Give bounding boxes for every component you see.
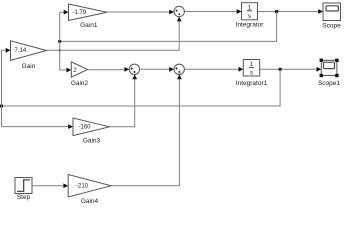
svg-text:s: s bbox=[248, 14, 251, 20]
svg-text:-160: -160 bbox=[79, 124, 92, 130]
svg-text:Integrator: Integrator bbox=[236, 21, 265, 28]
node: small dot where Gain output crosses x=59.7 bbox=[59, 49, 61, 51]
wire: Integrator1 output to Scope1 input bbox=[260, 67, 322, 72]
wire: Sum3 output to Integrator1 input bbox=[184, 67, 243, 72]
svg-text:-1.79: -1.79 bbox=[73, 10, 87, 16]
gain G2 (2) bbox=[71, 62, 87, 77]
svg-text:s: s bbox=[250, 70, 253, 76]
svg-text:Gain3: Gain3 bbox=[83, 137, 101, 144]
svg-text:Scope1: Scope1 bbox=[318, 80, 340, 87]
wire: feedback from Integrator output down and left (y=41.5) bbox=[60, 12, 277, 42]
wire: down from junction to Gain2 input bbox=[60, 41, 72, 72]
svg-text:Gain: Gain bbox=[22, 63, 36, 70]
svg-text:Gain4: Gain4 bbox=[81, 198, 99, 205]
wire: up from left junction to Gain input bbox=[2, 48, 11, 106]
gain G4 (-210) bbox=[68, 175, 111, 198]
wire: up from junction to Gain1 input bbox=[60, 10, 69, 42]
wire: Gain output right then up into Sum1 bottom bbox=[47, 17, 182, 51]
sum S1 bbox=[174, 6, 184, 16]
sum S2 bbox=[129, 64, 139, 74]
node: junction dot at x=59.7 y=41.4 bbox=[58, 40, 61, 43]
wire: Gain4 output right then up into Sum3 bottom bbox=[111, 75, 182, 186]
step source block bbox=[15, 178, 32, 194]
node: junction dot on Integrator1 output bbox=[278, 68, 281, 71]
svg-text:Gain2: Gain2 bbox=[71, 80, 89, 87]
scope SC1 bbox=[323, 3, 341, 21]
wire: Gain2 output to Sum2 left bbox=[88, 67, 130, 72]
scope SC2 (selected) bbox=[320, 59, 339, 78]
svg-text:Scope: Scope bbox=[322, 23, 341, 30]
wire: feedback from Integrator1 output down and left (y=106) bbox=[2, 69, 281, 106]
wire: Integrator output to Scope input bbox=[258, 9, 324, 14]
svg-text:Step: Step bbox=[17, 194, 31, 201]
svg-text:-210: -210 bbox=[76, 184, 89, 190]
wire: Sum1 output to Integrator input bbox=[184, 9, 241, 14]
svg-text:Gain1: Gain1 bbox=[80, 22, 98, 29]
gain G1 (-1.79) bbox=[69, 4, 108, 21]
gain G (7.14) bbox=[11, 41, 47, 61]
integrator U1 bbox=[242, 3, 258, 20]
wire: Gain1 output to Sum1 left bbox=[107, 10, 174, 15]
wire: down from left junction to Gain3 input bbox=[2, 106, 74, 129]
wire: Step output to Gain4 input bbox=[32, 183, 68, 188]
gain G3 (-160) bbox=[73, 118, 110, 136]
svg-text:7.14: 7.14 bbox=[15, 48, 27, 54]
wire: Sum2 output to Sum3 left bbox=[140, 67, 174, 72]
wire: Gain3 output right then up into Sum2 bottom bbox=[110, 75, 138, 127]
sum S3 bbox=[174, 64, 184, 74]
node: junction dot at far left x=1.5 y=106 bbox=[0, 104, 3, 107]
svg-text:Integrator1: Integrator1 bbox=[236, 80, 268, 87]
integrator U2 bbox=[243, 60, 259, 77]
node: junction dot on Integrator output bbox=[275, 10, 278, 13]
